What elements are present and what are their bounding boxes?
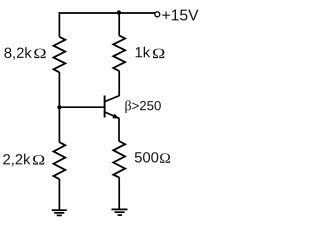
wire left branch middle [58,72,60,142]
resistor R2 2,2k zigzag [54,142,66,179]
label 1kOhm [136,47,165,59]
label beta>250 [125,100,160,113]
resistor R3 1k zigzag [113,36,125,72]
transistor Q1 emitter lead [105,112,119,118]
wire emitter vertical [118,118,120,142]
transistor Q1 collector lead [105,96,119,102]
label 500Ohm [135,152,170,163]
wire base [59,106,104,108]
resistor R4 500 zigzag [113,141,125,177]
junction node base [57,105,61,109]
wire right branch lower [118,177,120,209]
wire left branch upper [58,12,60,37]
ground right [112,209,128,215]
wire top rail [59,12,155,14]
resistor R1 8,2k zigzag [54,37,66,73]
power terminal circle [155,12,160,17]
label 8,2kOhm [4,47,45,60]
wire right branch upper [118,12,120,36]
label 2,2kOhm [3,154,44,167]
wire left branch lower [58,179,60,210]
wire collector vertical [118,71,120,96]
ground left [52,210,67,215]
transistor Q1 emitter arrow [113,114,119,118]
label +15V [162,10,198,21]
transistor Q1 base bar [104,96,106,118]
junction node top [117,10,121,14]
